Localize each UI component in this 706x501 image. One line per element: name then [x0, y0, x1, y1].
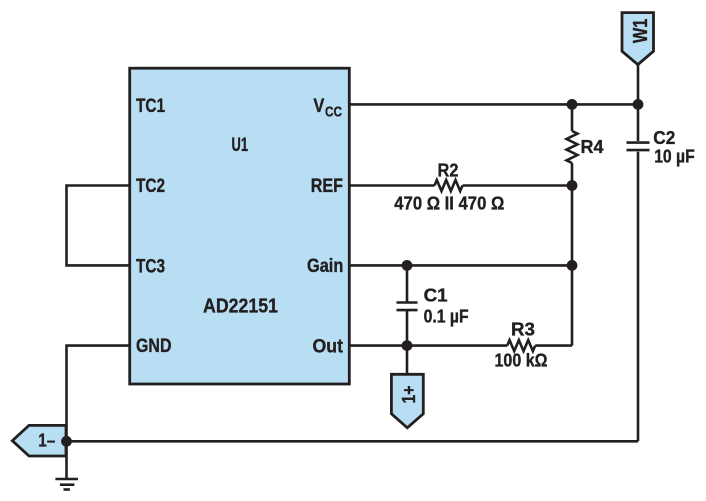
wire C1 top lead: [406, 265, 409, 302]
wire R2 to rail: [463, 184, 572, 187]
svg-text:V: V: [313, 96, 324, 117]
resistor R4: [567, 131, 578, 163]
pin label VCC: [313, 96, 342, 121]
junction node REF-R4: [567, 180, 578, 191]
svg-text:REF: REF: [311, 176, 343, 197]
svg-text:C2: C2: [653, 128, 675, 148]
ground: [55, 479, 78, 490]
wire Out pin to R3: [348, 344, 507, 347]
junction node 1minus-ground: [61, 436, 72, 447]
svg-text:R2: R2: [438, 160, 459, 180]
junction node Gain-C1: [402, 260, 413, 271]
wire W1 stub: [637, 65, 640, 105]
wire TC2 TC3 loop: [67, 186, 132, 266]
svg-text:0.1 µF: 0.1 µF: [424, 307, 469, 327]
svg-text:C1: C1: [424, 285, 448, 305]
svg-text:GND: GND: [136, 336, 172, 357]
svg-text:R3: R3: [511, 320, 535, 340]
junction node Gain-rail: [567, 260, 578, 271]
svg-text:W1: W1: [630, 19, 652, 44]
IC U1 AD22151 body: [130, 68, 350, 384]
svg-text:U1: U1: [232, 135, 249, 156]
junction node Out-C1-1plus: [402, 340, 413, 351]
connector W1: [622, 13, 654, 65]
connector 1-: [12, 425, 66, 456]
connector 1+: [391, 374, 423, 428]
junction node VCC-W1-C2: [633, 99, 644, 110]
svg-text:AD22151: AD22151: [203, 296, 278, 318]
capacitor C2: [627, 143, 650, 151]
resistor R2: [435, 180, 463, 191]
svg-text:10 µF: 10 µF: [654, 146, 695, 166]
junction node VCC-R4 rail: [567, 99, 578, 110]
wire ground stub: [65, 441, 68, 479]
svg-text:CC: CC: [325, 104, 342, 121]
svg-text:TC3: TC3: [136, 256, 165, 277]
wire VCC pin to right rail: [348, 103, 638, 106]
wire R4 rail middle: [571, 163, 574, 346]
svg-text:1+: 1+: [399, 386, 419, 404]
svg-text:470 Ω II 470 Ω: 470 Ω II 470 Ω: [394, 194, 504, 214]
wire GND pin to bottom node: [67, 346, 132, 442]
svg-text:TC1: TC1: [136, 96, 165, 117]
svg-text:R4: R4: [581, 137, 604, 157]
wire R4 rail top: [571, 104, 574, 131]
svg-text:100 kΩ: 100 kΩ: [495, 351, 548, 371]
wire R3 to rail corner: [535, 344, 572, 347]
wire C2 bottom lead to bottom rail: [637, 152, 640, 442]
wire REF pin to R2: [348, 184, 435, 187]
wire C1 bottom lead: [406, 310, 409, 346]
capacitor C1: [397, 303, 418, 311]
svg-text:TC2: TC2: [136, 176, 165, 197]
svg-text:1–: 1–: [38, 431, 55, 451]
wire bottom rail: [67, 440, 639, 443]
svg-text:Gain: Gain: [307, 256, 343, 277]
svg-text:Out: Out: [313, 336, 344, 357]
wire C2 top lead: [637, 104, 640, 141]
wire 1+ connector stub: [406, 346, 409, 375]
wire Gain pin to rail: [348, 264, 572, 267]
resistor R3: [507, 340, 535, 351]
